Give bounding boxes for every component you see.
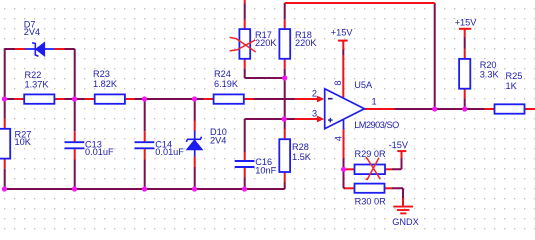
- wire top rail y=99 segments: [4, 98, 295, 100]
- svg-text:2V4: 2V4: [210, 135, 226, 145]
- svg-text:2: 2: [312, 88, 317, 98]
- svg-text:R30 0R: R30 0R: [355, 196, 387, 206]
- resistor R22: [24, 94, 54, 103]
- pin R28 top: [284, 129, 286, 139]
- pin R20 top: [464, 29, 466, 59]
- wire node to R29 left: [344, 168, 346, 170]
- svg-text:R29 0R: R29 0R: [355, 149, 387, 159]
- wire R17 bottom to R18 bottom y=78: [245, 69, 285, 78]
- svg-text:220K: 220K: [255, 38, 277, 48]
- svg-text:1.5K: 1.5K: [292, 152, 312, 162]
- resistor R25: [495, 104, 525, 113]
- pin R20 bottom: [464, 89, 466, 99]
- svg-text:R24: R24: [214, 69, 231, 79]
- svg-text:220K: 220K: [295, 38, 317, 48]
- pin D10 bottom: [194, 157, 196, 167]
- svg-text:10nF: 10nF: [255, 165, 276, 175]
- pin R22 right: [54, 98, 64, 100]
- resistor R30: [355, 184, 385, 193]
- pin C14 bottom: [144, 149, 146, 159]
- wire pin3 node to op-amp and to C16 corner: [245, 119, 295, 152]
- wire bottom rail y=189: [4, 188, 285, 190]
- svg-text:1K: 1K: [506, 81, 518, 91]
- pin op-amp 1 output: [364, 108, 394, 110]
- wire R28 vertical below pin3 node: [284, 119, 286, 189]
- pin C16 bottom: [244, 168, 246, 178]
- wire pin4 to R29/R30 node: [343, 158, 345, 170]
- op-amp minus marker: [328, 98, 333, 100]
- pin R17 top: [244, 19, 246, 29]
- svg-text:0.01uF: 0.01uF: [155, 147, 184, 157]
- svg-text:10K: 10K: [15, 137, 32, 147]
- pin op-amp 3: [295, 118, 318, 120]
- resistor R17: [239, 29, 250, 59]
- pin R18 top: [284, 19, 286, 29]
- resistor R20: [459, 59, 470, 89]
- pin C14 top: [144, 131, 146, 141]
- ground GNDX symbol: [393, 207, 413, 214]
- power bar +15V R20: [459, 28, 471, 30]
- svg-text:3: 3: [312, 108, 317, 118]
- svg-text:U5A: U5A: [354, 80, 373, 90]
- pin C13 top: [74, 131, 76, 141]
- wire R30 right to ground stem: [392, 188, 403, 198]
- pin R25 left: [485, 108, 495, 110]
- arrow pin3: [317, 116, 324, 123]
- power bar -15V: [397, 150, 406, 152]
- pin D7 right: [54, 48, 64, 50]
- wire C14 vertical x=144.7: [144, 99, 146, 189]
- arrow pin2: [317, 96, 324, 103]
- pin R17 top edge tip: [244, 0, 246, 4]
- pin R30 right: [384, 187, 392, 189]
- component boxes: [0, 29, 525, 193]
- DNP cross R17: [230, 37, 256, 52]
- pin C13 bottom: [74, 149, 76, 159]
- svg-text:GNDX: GNDX: [392, 217, 419, 227]
- pin R23 right: [125, 98, 135, 100]
- svg-text:R25: R25: [506, 71, 523, 81]
- pin -15V stem tip: [401, 152, 403, 158]
- svg-text:-15V: -15V: [389, 140, 409, 150]
- wire R20 bottom: [464, 99, 466, 110]
- diode D10 (zener, pointing up): [186, 131, 202, 157]
- wire op-amp output to feedback node: [395, 108, 485, 110]
- pin R27 top: [4, 119, 6, 129]
- pin R25 right: [524, 108, 535, 110]
- pin R27 bottom: [4, 159, 6, 169]
- svg-text:+15V: +15V: [331, 28, 354, 38]
- svg-text:2V4: 2V4: [24, 27, 40, 37]
- pin R29 right: [385, 168, 392, 170]
- svg-text:R22: R22: [25, 70, 42, 80]
- wire feedback vertical x=434.7: [434, 3, 436, 109]
- wire R18 bottom through pin2 down to pin3 node: [284, 69, 286, 119]
- DNP cross R29: [366, 157, 381, 179]
- pin R24 right: [244, 98, 254, 100]
- pin R28 bottom: [284, 172, 286, 182]
- svg-text:R20: R20: [480, 60, 497, 70]
- top feedback wire y=3: [285, 2, 435, 4]
- pin R30 left: [345, 187, 355, 189]
- capacitor C16: [235, 161, 255, 167]
- resistor R29: [355, 165, 386, 175]
- wire D7 right to x=74.7: [64, 49, 75, 189]
- pin R17 bottom: [244, 59, 246, 69]
- wire R17 top stub: [244, 4, 246, 20]
- power bar +15V op-amp: [338, 40, 348, 42]
- resistor R23: [95, 94, 125, 103]
- svg-text:6.19K: 6.19K: [214, 79, 239, 89]
- svg-text:1.37K: 1.37K: [25, 80, 50, 90]
- pin op-amp 8: [342, 41, 344, 97]
- pin R29 left: [345, 168, 355, 170]
- resistor R28: [279, 139, 290, 172]
- wire R20 top from +15V: [464, 37, 466, 49]
- pin C16 top: [244, 152, 246, 160]
- svg-text:LM2903/SO: LM2903/SO: [354, 120, 399, 130]
- resistor R18: [279, 29, 290, 59]
- resistor R27: [0, 129, 10, 159]
- capacitor C13: [65, 142, 85, 148]
- svg-text:R23: R23: [93, 69, 110, 79]
- wire D7 left horizontal: [5, 48, 15, 50]
- pin op-amp 4: [343, 129, 345, 158]
- svg-text:0.01uF: 0.01uF: [85, 147, 114, 157]
- pin R23 left: [85, 98, 95, 100]
- pin R18 bottom: [284, 59, 286, 69]
- wire node down to R30 left: [344, 169, 346, 188]
- input arrowheads: [317, 96, 324, 123]
- pin op-amp 2: [295, 98, 318, 100]
- resistor R24: [214, 94, 244, 103]
- svg-text:R28: R28: [292, 142, 309, 152]
- wire D10 vertical x=194.7: [194, 99, 196, 189]
- wire R18 top stub: [284, 3, 286, 19]
- svg-text:8: 8: [333, 80, 343, 85]
- wire op-amp pin8 short segment: [342, 49, 344, 55]
- svg-text:+15V: +15V: [455, 18, 478, 28]
- op-amp pin4 blue stub: [343, 120, 345, 130]
- pin R22 left: [14, 98, 24, 100]
- svg-text:1: 1: [372, 97, 377, 107]
- wire R29 right to -15V stem: [392, 152, 402, 169]
- pin D7 left: [15, 48, 25, 50]
- capacitor C14: [135, 142, 155, 148]
- wire left vertical x=4.7 (D7/R22/R27 branch): [4, 3, 485, 199]
- pin GNDX stem: [402, 198, 404, 206]
- pin R24 left: [204, 98, 214, 100]
- op-amp plus marker: [328, 118, 333, 123]
- svg-text:3.3K: 3.3K: [480, 70, 500, 80]
- pin D10 top: [194, 121, 196, 132]
- wire C16 bottom to rail: [244, 177, 246, 189]
- svg-text:4: 4: [333, 136, 343, 141]
- svg-text:1.82K: 1.82K: [93, 79, 118, 89]
- op-amp U5A triangle: [325, 89, 365, 129]
- diode D7 (zener, pointing left): [25, 42, 55, 56]
